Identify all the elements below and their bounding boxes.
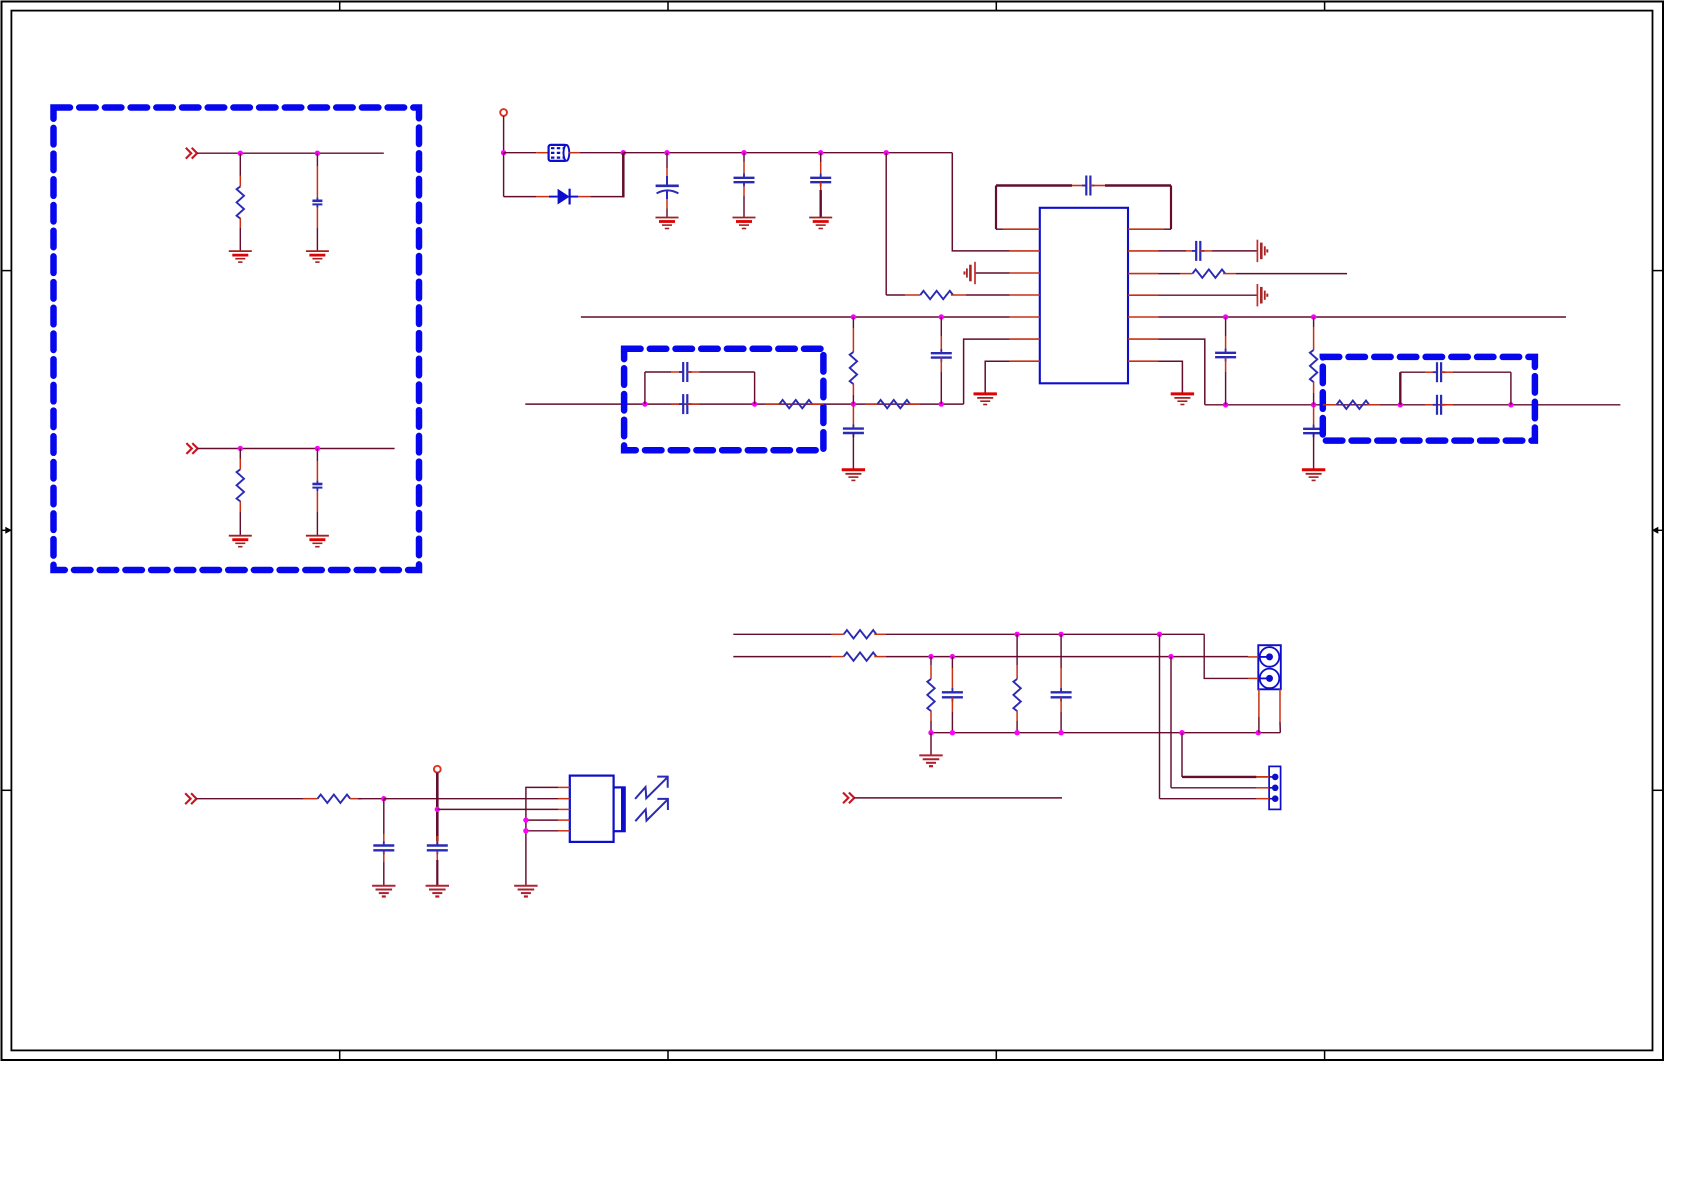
connector J2 body: [1269, 766, 1281, 809]
wire loop2 left vertical: [644, 372, 646, 404]
pin R6.2: [852, 384, 854, 395]
node rail2-e: [1179, 730, 1184, 735]
pin U2.3: [558, 808, 570, 810]
connector J1 pin2 dot: [1266, 675, 1273, 682]
pin U1.5: [1010, 316, 1040, 318]
node ir-d: [523, 828, 528, 833]
wire rail seg2: [580, 152, 623, 154]
wire C2 bottom lead: [316, 512, 318, 536]
pin C16.1: [383, 834, 385, 846]
wire ir-b to module: [437, 808, 558, 810]
resistor R1: [237, 187, 244, 219]
pin C7.1: [1186, 250, 1196, 252]
wire C3 bottom lead: [666, 209, 668, 218]
wire U1.3 lead: [975, 272, 1010, 274]
wire J2.1 thick: [1182, 776, 1256, 778]
pin R10.2: [908, 403, 920, 405]
wire J1.3 to rail: [1258, 717, 1260, 733]
pin R5.1: [1313, 327, 1315, 350]
capacitor C3 polarized: [656, 176, 679, 199]
node rail-d: [818, 150, 823, 155]
wire R5 to row: [1313, 393, 1315, 405]
wire loop2 top left: [645, 371, 671, 373]
wire C5 bottom lead thick: [820, 190, 822, 218]
wire sig2 left: [733, 656, 832, 658]
node rail-b: [664, 150, 669, 155]
pin U1.11: [1128, 294, 1159, 296]
wire xtal row left: [525, 403, 963, 405]
pin R17.2: [1016, 711, 1018, 721]
border zone tick bottom 1: [339, 1050, 341, 1060]
border zone tick bottom 4: [1324, 1050, 1326, 1060]
pin D1.1: [536, 196, 549, 198]
wire J2.2 vertical: [1170, 657, 1172, 788]
pin R14.2: [874, 633, 886, 635]
capacitor C15: [1433, 404, 1437, 406]
connector J1 pin1 dot: [1266, 653, 1273, 660]
pin C6.2: [1090, 185, 1105, 187]
capacitor C6: [1082, 185, 1086, 187]
border zone tick left 1: [2, 270, 12, 272]
pin R13.2: [350, 798, 362, 800]
wire C11 to row: [940, 372, 942, 404]
wire U1.8 corner: [1159, 361, 1183, 394]
pin C2.1: [316, 461, 318, 481]
border zone tick bottom 2: [667, 1050, 669, 1060]
capacitor C16: [383, 841, 385, 845]
pin U1.8: [1128, 360, 1159, 362]
wire J2.1 vertical: [1181, 733, 1183, 777]
node rail-e: [884, 150, 889, 155]
wire net1 horizontal: [197, 152, 384, 154]
connector J1 body: [1258, 645, 1281, 689]
pin C2.2: [316, 491, 318, 512]
pin C12.2: [687, 371, 699, 373]
wire R2 bottom lead: [239, 512, 241, 536]
wire VCC bus right: [1159, 316, 1567, 318]
pin C13.1: [671, 403, 683, 405]
capacitor C7: [1192, 250, 1196, 252]
wire P3 to R13: [197, 798, 304, 800]
pin C19.2: [1060, 697, 1062, 712]
wire loop2 top right: [700, 371, 755, 373]
ground GND1: [229, 250, 252, 252]
wire R4 out: [1236, 273, 1347, 275]
pin R2.2: [239, 501, 241, 512]
wire C16 bottom lead: [383, 862, 385, 886]
wire R16 bottom lead: [930, 721, 932, 733]
pin U1.2: [1010, 250, 1040, 252]
wire U1.7 corner: [985, 361, 1010, 394]
border zone tick top 4: [1324, 2, 1326, 11]
pin C8.1: [1225, 336, 1227, 353]
ground GND3: [229, 535, 252, 537]
resistor R4: [1193, 269, 1226, 277]
wire loop stub left: [996, 228, 1003, 230]
pin C10.1: [852, 404, 854, 426]
wire net2 horizontal: [198, 448, 395, 450]
pin C8.2: [1225, 357, 1227, 372]
pin U1.1: [1003, 228, 1040, 230]
pin U2.4: [558, 819, 570, 821]
ground GND12: [372, 885, 395, 887]
dashed highlight box B1: [54, 108, 420, 571]
pin C15.1: [1425, 404, 1437, 406]
border zone tick top 1: [339, 2, 341, 11]
wire J2.3 horizontal: [1160, 798, 1257, 800]
wire J2.3 vertical: [1159, 634, 1161, 798]
capacitor C2: [316, 481, 318, 484]
wire J2.2 horizontal: [1171, 787, 1256, 789]
node row-r1: [1223, 402, 1228, 407]
wire U2.4 lead: [526, 819, 558, 821]
node net1-a: [238, 151, 243, 156]
pin R2.1: [239, 459, 241, 470]
ferrite bead L1: [549, 145, 570, 161]
pin D1.2: [578, 196, 590, 198]
pin J2.2: [1256, 787, 1269, 789]
wire sig1 left: [733, 633, 832, 635]
port P2: [186, 443, 191, 454]
wire R2 top lead: [239, 449, 241, 459]
wire U1.12 lead: [1159, 273, 1181, 275]
wire ir row to module: [384, 798, 558, 800]
pin R4.2: [1223, 273, 1236, 275]
wire vertA2 top lead: [1313, 317, 1315, 327]
resistor R16: [927, 679, 934, 711]
wire C7 to earth: [1212, 250, 1257, 252]
pin R7.2: [810, 403, 824, 405]
connector J2 pin2 lead: [1269, 787, 1275, 789]
connector J2 pin2 dot: [1272, 785, 1279, 792]
capacitor C19: [1060, 688, 1062, 692]
pin R14.1: [832, 633, 844, 635]
pin C9.1: [1313, 405, 1315, 426]
node sig1-c: [1157, 632, 1162, 637]
wire vertA top lead: [852, 317, 854, 328]
capacitor C11: [940, 349, 942, 353]
resistor R7: [779, 400, 812, 408]
node rail2-d: [1058, 730, 1063, 735]
pin R11.1: [1323, 404, 1337, 406]
earth E1: [974, 262, 976, 284]
pin C15.2: [1441, 404, 1453, 406]
wire sig1 corner to J1: [1204, 634, 1248, 678]
node bus-l1: [851, 314, 856, 319]
wire C16 top lead: [383, 799, 385, 834]
wire C18 bottom lead: [951, 712, 953, 733]
pin J1.1: [1248, 656, 1258, 658]
port P3: [185, 793, 190, 804]
wire ground rail: [931, 732, 1280, 734]
node rail2-f: [1256, 730, 1261, 735]
pin J2.1: [1256, 776, 1269, 778]
node sig2-a: [928, 654, 933, 659]
ground GND7: [809, 217, 832, 219]
wire U2.1 corner: [526, 787, 558, 885]
pin U1.6: [1010, 338, 1040, 340]
resistor R10: [877, 400, 910, 408]
ground GND8: [974, 392, 997, 395]
pin R5.2: [1313, 382, 1315, 393]
capacitor C10: [852, 424, 854, 428]
capacitor C17: [436, 841, 438, 845]
wire VCC bus left: [581, 316, 1010, 318]
pin U2.5: [558, 830, 570, 832]
wire T1 down: [503, 116, 505, 153]
pin C11.1: [940, 336, 942, 353]
node net2-b: [315, 446, 320, 451]
ground GND11: [1302, 468, 1325, 471]
resistor R6: [850, 352, 857, 384]
node bus-r2: [1311, 314, 1316, 319]
pin U1.7: [1010, 360, 1040, 362]
capacitor C14: [1433, 371, 1437, 373]
pin U1.9: [1128, 338, 1159, 340]
connector J1 pin2 lead: [1258, 677, 1269, 679]
border arrow right: [1652, 527, 1664, 534]
border zone tick right 2: [1653, 789, 1664, 791]
pin L1.2: [569, 152, 580, 154]
ir module U2 lens bump: [614, 787, 625, 831]
pin C16.2: [383, 852, 385, 863]
ground GND15: [919, 754, 942, 756]
pin C6.1: [1072, 185, 1086, 187]
dashed highlight box B3: [1323, 357, 1535, 441]
wire U2.5 lead: [526, 830, 558, 832]
node net2-a: [238, 446, 243, 451]
pin R7.1: [765, 403, 779, 405]
diode D1: [549, 189, 578, 205]
wire U1 loop right vertical: [1170, 186, 1172, 230]
wire C18 top lead: [951, 657, 953, 668]
capacitor C4: [743, 174, 745, 178]
pin R11.2: [1367, 404, 1380, 406]
pin C17.1: [436, 836, 438, 846]
connector J1 pin1 ring: [1260, 647, 1280, 667]
pin U1.10: [1128, 316, 1159, 318]
pin R17.1: [1016, 665, 1018, 679]
ground GND6: [733, 217, 756, 219]
node sig2-b: [950, 654, 955, 659]
wire C9 bottom lead: [1313, 433, 1315, 470]
pin R1.2: [239, 218, 241, 228]
node sig1-a: [1014, 632, 1019, 637]
wire U1 loop left vertical: [995, 186, 997, 230]
pin C4.2: [743, 186, 745, 196]
connector J2 pin1 lead: [1269, 776, 1275, 778]
wire P4: [854, 797, 1062, 799]
pin C3.2: [666, 199, 668, 209]
border zone tick top 2: [667, 2, 669, 11]
wire diode branch bottom seg1: [504, 196, 536, 198]
wire sig1 right: [886, 633, 1205, 635]
capacitor C13: [679, 403, 683, 405]
pin U1.12: [1128, 273, 1159, 275]
ir arrow 2: [635, 799, 668, 821]
pin R16.2: [930, 711, 932, 721]
resistor R15: [844, 652, 877, 660]
wire R6 to row: [852, 395, 854, 404]
node bus-l2: [939, 314, 944, 319]
border zone tick left 2: [2, 789, 12, 791]
wire C10 bottom lead: [852, 433, 854, 470]
resistor R17: [1013, 679, 1020, 711]
wire C1 bottom lead: [316, 228, 318, 251]
pin C1.2: [316, 208, 318, 228]
pin C5.2: [820, 182, 822, 190]
pin R1.1: [239, 176, 241, 187]
wire rail to ground: [930, 733, 932, 756]
wire xtal row right: [1205, 404, 1621, 406]
node row-l2: [752, 401, 757, 406]
resistor R5: [1310, 350, 1317, 382]
earth E3: [1256, 284, 1258, 306]
pin R6.1: [852, 328, 854, 352]
pin L1.1: [536, 152, 547, 154]
node rail2-a: [928, 730, 933, 735]
wire J1.4 to rail: [1279, 722, 1281, 733]
node VIN: [501, 150, 506, 155]
node row-r2: [1311, 402, 1316, 407]
node row-r4: [1508, 402, 1513, 407]
pin C13.2: [687, 403, 699, 405]
capacitor C5: [820, 174, 822, 178]
capacitor C18: [951, 688, 953, 692]
wire R3 to U1.4: [966, 294, 1010, 296]
pin J1.3 down: [1258, 689, 1260, 717]
resistor R3: [920, 291, 953, 299]
node ir-a: [381, 796, 386, 801]
wire rail-e down: [885, 153, 887, 295]
pin C17.2: [436, 852, 438, 861]
dashed highlight box B2: [624, 349, 823, 450]
wire C5 top lead: [820, 153, 822, 162]
wire VIN rail seg1: [504, 152, 537, 154]
border arrow left: [1, 527, 12, 534]
wire C17 bottom lead: [436, 860, 438, 886]
ground GND4: [306, 535, 329, 537]
resistor R2: [237, 469, 244, 501]
wire R17 top lead: [1016, 634, 1018, 665]
wire loop3 top right: [1453, 371, 1511, 373]
border zone tick right 1: [1653, 270, 1664, 272]
wire loop3 left vertical thick: [1399, 372, 1401, 405]
pin U1.14: [1128, 228, 1164, 230]
pin C14.1: [1425, 371, 1437, 373]
connector J2 pin3 lead: [1269, 798, 1275, 800]
wire C3 top lead: [666, 153, 668, 168]
pin C7.2: [1200, 250, 1212, 252]
wire U1.13 to C7: [1159, 250, 1187, 252]
node ir-b: [435, 807, 440, 812]
pin C5.1: [820, 162, 822, 178]
node sig2-c: [1168, 654, 1173, 659]
node rail2-b: [950, 730, 955, 735]
resistor R13: [318, 795, 351, 803]
pin R15.1: [832, 656, 844, 658]
capacitor C1: [316, 197, 318, 200]
wire vertB top lead: [940, 317, 942, 336]
pin R4.1: [1180, 273, 1193, 275]
pin C3.1: [666, 168, 668, 184]
wire C8 to row: [1225, 372, 1227, 405]
port P1: [186, 148, 191, 159]
wire C4 top lead: [743, 153, 745, 162]
wire R17 bottom lead: [1016, 721, 1018, 733]
pin C19.1: [1060, 668, 1062, 691]
wire T2 down thick: [436, 773, 439, 841]
resistor R14: [844, 630, 877, 638]
node rail-a: [621, 150, 626, 155]
wire U1.11 to earth: [1159, 294, 1258, 296]
port P4: [843, 793, 848, 804]
pin U2.2: [558, 798, 570, 800]
pin C14.2: [1441, 371, 1453, 373]
connector J1 pin1 lead: [1258, 656, 1269, 658]
wire R1 bottom lead: [239, 228, 241, 251]
wire rail seg3: [623, 152, 952, 154]
pin R13.1: [303, 798, 318, 800]
pin R3.1: [905, 294, 920, 296]
ir module U2 body: [570, 776, 614, 842]
wire diode branch right vertical thick: [622, 153, 625, 198]
wire U1 loop top right: [1105, 184, 1171, 186]
wire C2 top lead: [316, 449, 318, 462]
wire R16 top lead: [930, 657, 932, 665]
pin C11.2: [940, 358, 942, 372]
connector J2 pin1 dot: [1272, 774, 1279, 781]
wire diode branch bottom seg2: [590, 196, 624, 198]
wire C1 top lead: [316, 153, 318, 166]
node row-l1: [642, 401, 647, 406]
wire loop2 right vertical: [754, 372, 756, 404]
ground GND9: [1171, 392, 1194, 395]
node rail2-c: [1014, 730, 1019, 735]
wire R13 to node: [358, 798, 384, 800]
ground GND5: [656, 217, 679, 219]
connector J2 pin3 dot: [1272, 795, 1279, 802]
wire U1 loop top left: [996, 184, 1072, 186]
pin C18.2: [951, 697, 953, 712]
capacitor C9: [1313, 425, 1315, 429]
ground GND2: [306, 250, 329, 252]
wire vertB2 top lead: [1225, 317, 1227, 336]
pin R15.2: [874, 656, 886, 658]
ground GND13: [426, 885, 449, 887]
pin R3.2: [951, 294, 966, 296]
pin U1.4: [1010, 294, 1040, 296]
node rail-c: [741, 150, 746, 155]
ir arrow 1: [635, 777, 668, 799]
wire C4 bottom lead: [743, 196, 745, 218]
pin R16.1: [930, 665, 932, 679]
wire loop stub right: [1164, 228, 1171, 230]
capacitor C12: [679, 371, 683, 373]
capacitor C8: [1225, 349, 1227, 353]
wire U1.6 corner: [964, 339, 1010, 404]
pin J1.2: [1248, 677, 1258, 679]
border zone tick top 3: [995, 2, 997, 11]
node row-l4: [939, 401, 944, 406]
resistor R11: [1337, 401, 1370, 409]
pin U2.1: [558, 786, 570, 788]
pin R10.1: [865, 403, 877, 405]
wire loop3 top left: [1400, 371, 1425, 373]
wire R3 left lead: [886, 294, 905, 296]
node row-l3: [851, 401, 856, 406]
pin C1.1: [316, 166, 318, 197]
